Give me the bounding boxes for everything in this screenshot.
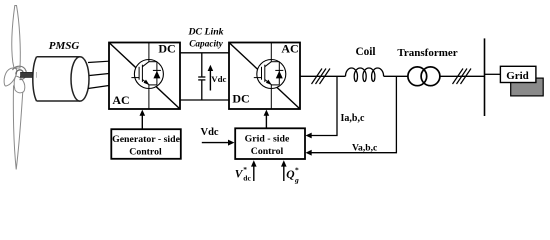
PMSG right end cap [71, 57, 89, 101]
svg-text:Q: Q [286, 169, 294, 181]
svg-text:DC: DC [158, 42, 175, 56]
svg-text:Vdc: Vdc [211, 74, 226, 84]
bus bar [484, 38, 486, 116]
svg-text:DC: DC [232, 92, 249, 106]
svg-text:Ia,b,c: Ia,b,c [341, 113, 365, 124]
current tap Ia,b,c wire [306, 76, 338, 138]
svg-text:Coil: Coil [355, 46, 375, 58]
coil L1 [346, 68, 384, 82]
grid shadow block [511, 78, 544, 96]
svg-text:AC: AC [112, 93, 129, 107]
wire 3-phase PMSG to converter [88, 61, 109, 88]
svg-text:Grid: Grid [506, 70, 529, 82]
hub swirl outer [13, 66, 27, 79]
wind turbine [4, 6, 26, 170]
svg-text:Grid - side: Grid - side [245, 134, 290, 145]
svg-text:Control: Control [251, 146, 284, 157]
left blade [4, 68, 17, 86]
IGBT switch symbol U1 [131, 43, 163, 110]
svg-text:dc: dc [243, 174, 251, 183]
PMSG generator cylinder [33, 57, 80, 101]
turbine shaft [21, 72, 37, 77]
grid-side converter U2 [229, 43, 300, 110]
Grid box [500, 66, 536, 82]
DC link top rail wire [180, 52, 229, 54]
grid-side control box [235, 128, 305, 159]
control arrow to U1 [140, 110, 146, 130]
svg-text:Control: Control [129, 147, 162, 158]
transformer T1 secondary [421, 67, 440, 86]
Vdc measurement arrow [208, 65, 214, 91]
IGBT switch symbol U2 [254, 43, 286, 110]
wire bus to grid [485, 73, 501, 75]
hub swirl inner [16, 70, 23, 77]
wire U2 output main AC line [300, 75, 346, 77]
svg-text:g: g [294, 176, 299, 185]
generator-side converter U1 [109, 43, 180, 110]
bottom blade [13, 84, 23, 170]
three-phase slash marks 2 [453, 69, 472, 85]
reference input Q*g arrow [281, 160, 287, 181]
svg-text:*: * [295, 166, 299, 175]
lower-right hub blade piece [14, 76, 25, 93]
svg-text:Vdc: Vdc [201, 127, 219, 138]
Vdc feedback input arrow [202, 140, 235, 146]
DC link bottom rail wire [180, 99, 229, 101]
control arrow to U2 [264, 110, 270, 129]
capacitor C1 [198, 53, 205, 100]
wire transformer to bus [440, 75, 485, 77]
top blade [12, 6, 21, 69]
svg-text:Va,b,c: Va,b,c [352, 143, 378, 154]
svg-text:Transformer: Transformer [397, 47, 457, 59]
svg-text:Capacity: Capacity [189, 39, 223, 49]
svg-text:DC Link: DC Link [187, 27, 223, 38]
transformer T1 primary [408, 67, 427, 86]
svg-text:Generator - side: Generator - side [112, 134, 180, 145]
three-phase slash marks 1 [312, 69, 331, 85]
svg-text:AC: AC [281, 42, 298, 56]
generator-side control box [111, 129, 181, 159]
svg-text:PMSG: PMSG [49, 40, 80, 52]
reference input V*dc arrow [251, 160, 257, 181]
voltage tap Va,b,c wire [306, 76, 397, 155]
wire coil to transformer [384, 75, 408, 77]
